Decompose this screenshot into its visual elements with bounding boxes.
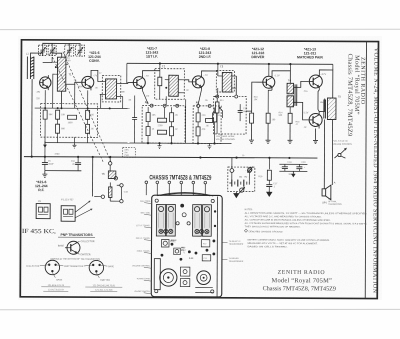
wire riser conv to bus: [126, 63, 128, 83]
battery holder lines: [195, 287, 213, 292]
rotated title block ZENITH RADIO: [346, 54, 365, 137]
value label R14: [279, 112, 284, 117]
oscillator coil T1: [55, 57, 68, 91]
stage label 2ND I.F.: [199, 47, 212, 59]
chassis part box 2: [174, 248, 181, 255]
wire volume to Q5 base: [246, 82, 262, 111]
ground bias box: [72, 143, 76, 148]
stage label CONV: [88, 51, 101, 63]
wire T4 bottom tap: [289, 107, 291, 113]
T3 secondary bottom wire: [214, 88, 218, 97]
trimmer capacitor C2A: [65, 45, 74, 56]
ground R12: [249, 123, 254, 143]
chassis small circles: [176, 213, 190, 225]
T2 primary bottom wire: [165, 96, 167, 105]
AGC A2 value labels: [202, 115, 222, 131]
volume box pin circles: [216, 95, 238, 98]
wire riser driver to bus: [289, 64, 291, 71]
wire trimmer top bus: [43, 43, 80, 45]
transistor bottom view 2: [84, 260, 108, 278]
wire Q6 emitter to Q7 collector: [318, 90, 319, 112]
transistor Q1 converter-osc: [40, 75, 51, 90]
wire bias bottoms to bus: [45, 119, 88, 157]
B1 labels: [234, 170, 248, 179]
transistor Q4 2nd IF: [192, 74, 204, 90]
filter F5 box: [36, 204, 50, 219]
chassis corner screws: [155, 199, 215, 293]
wire Q5 top riser: [268, 64, 270, 76]
wire Q6 collector to T5: [319, 70, 333, 99]
resistor R16: [267, 170, 271, 180]
wire riser T3 top to bus: [217, 64, 219, 71]
bottom view refs left: [48, 285, 65, 291]
pointer F1 to schematic: [75, 201, 90, 213]
dashed gang line 2: [52, 57, 104, 162]
wire Q4 emitter into AGC: [198, 90, 201, 105]
chassis layout outline: [151, 192, 222, 297]
denotes diamond symbol: [244, 229, 247, 232]
ground C17: [267, 190, 272, 196]
wire AGC bottom bus: [129, 142, 231, 144]
wire T2A to Q3 base: [123, 82, 134, 83]
wire comb vertical x75: [74, 84, 76, 108]
wire trimmer mid riser: [51, 43, 53, 45]
filter F1 box: [61, 206, 75, 222]
wire T1 bottom: [60, 91, 62, 108]
wire T2 bottom to bus: [184, 99, 186, 143]
earphone note dashed outline: [123, 147, 136, 157]
R11 w/switch caption: [216, 136, 236, 141]
transistor Q3 1st IF: [133, 75, 145, 91]
wire Q2 base from T1: [68, 82, 81, 84]
chassis extra X circles: [164, 229, 204, 233]
wire battery + to bus: [231, 158, 233, 169]
chassis solder dots: [161, 210, 217, 261]
schematic border frame: [20, 40, 378, 299]
wire top bus main run: [127, 63, 333, 64]
value label conv base: [74, 80, 84, 89]
transistor Q5 driver: [262, 74, 275, 90]
bottom view 2 labels: [74, 265, 115, 282]
ground R13: [265, 123, 270, 143]
left bias network dashed box: [41, 104, 98, 138]
speaker in chassis: [197, 271, 211, 285]
left bias values: [49, 114, 95, 130]
ground T4 tap: [287, 123, 292, 143]
legend labels: [58, 241, 95, 256]
stage label DRIVER: [251, 47, 265, 59]
AGC network dashed box A1: [142, 104, 185, 143]
stage label MATCHED PAIR: [297, 47, 323, 59]
wire trimmer C2A riser: [68, 43, 70, 45]
output transformer T5: [324, 98, 336, 120]
junction dots B- bus: [31, 156, 291, 159]
wire T5 core down: [323, 119, 325, 188]
IF can 1: [156, 204, 165, 236]
wire Q2 emitter down: [87, 90, 89, 110]
main B- bus: [24, 157, 317, 158]
earphone jack note box: [124, 150, 129, 157]
C9 label: [48, 161, 55, 166]
stage label 1ST I.F.: [146, 47, 159, 59]
node circles above chassis: [145, 181, 207, 184]
Q5 emitter resistor R13: [266, 113, 270, 123]
wire riser T2 top to bus: [159, 63, 161, 68]
T4 tap resistor R15: [288, 113, 292, 123]
IF transformer T3: [216, 70, 236, 92]
chassis part box 4: [202, 255, 211, 261]
wire Q5 collector to T4: [272, 71, 290, 84]
wire T3 secondary down to volume: [235, 76, 237, 96]
ground AGC box A2: [207, 143, 211, 148]
right margin separator line: [365, 42, 366, 298]
ground AGC box A1 left: [157, 143, 161, 148]
driver transformer T4: [287, 83, 297, 107]
chassis part box 1: [161, 239, 169, 247]
ground lower return: [42, 171, 47, 178]
junction dots bias row: [44, 107, 111, 109]
junction dots AGC bus: [147, 142, 216, 145]
wire T5 secondary down to speaker: [331, 120, 333, 185]
wire bias ground bus: [44, 142, 129, 144]
junction dots top bus: [159, 62, 292, 65]
ground C19 C20: [291, 171, 295, 177]
on-off switch S1: [334, 148, 346, 158]
wire T4 secondary to Q6 base: [294, 81, 309, 87]
trimmer capacitor C2B: [76, 45, 85, 56]
C17 label: [273, 183, 278, 188]
wire bias row bus: [35, 107, 130, 109]
dashed gang line 1: [62, 52, 111, 162]
T2A secondary bottom wire: [122, 96, 124, 108]
chassis left callouts: [132, 200, 151, 293]
transistor Q2 converter: [81, 74, 94, 90]
wire riser Q6 to bus: [332, 64, 334, 70]
wire R12: [251, 111, 253, 113]
wire Q1 emitter down: [44, 90, 46, 110]
capacitor under Q3 base: [132, 96, 137, 144]
chassis right callout T4: [222, 258, 243, 263]
wire antenna top: [31, 53, 43, 57]
IF can 2: [166, 205, 175, 237]
C10 label: [71, 161, 76, 166]
IF transformer T2: [155, 69, 185, 100]
Q5 bias resistor R12: [250, 113, 254, 123]
chassis right callout T5: [222, 241, 243, 246]
wire risers into chassis view: [146, 184, 205, 196]
osc feedback wire: [52, 57, 55, 62]
earphone jack J1: [247, 167, 253, 173]
capacitor C10: [75, 157, 81, 171]
wire comb vertical x101: [100, 94, 102, 108]
wire Q4 collector to T3: [202, 71, 218, 76]
dial pulley rect: [154, 259, 160, 290]
page bottom edge: [0, 308, 400, 310]
chassis part box 3: [201, 240, 210, 247]
chassis center stud: [180, 204, 184, 208]
wire Q5 emitter: [268, 90, 272, 113]
volume control dashed box R11: [214, 96, 247, 134]
junction dot Q5 riser: [268, 63, 270, 65]
bottom title block: [263, 270, 336, 293]
wire antenna bottom to ground bus: [31, 79, 33, 156]
page top edge: [0, 28, 400, 30]
C19 C20 labels: [280, 162, 306, 176]
earphone jack J2: [239, 187, 245, 193]
ground bias left: [43, 141, 47, 148]
IF can 4: [202, 205, 211, 237]
full ccw note: [332, 141, 352, 146]
1st IF transformer T2A (converter output): [100, 75, 123, 102]
transistor Q7 output: [308, 111, 322, 128]
IF can 3: [193, 205, 202, 237]
ground battery: [234, 192, 239, 198]
battery note block: [247, 239, 329, 249]
transistor symbol legend: [65, 241, 80, 254]
wire Q3 emitter into AGC: [142, 91, 148, 105]
wire Q7 collector join: [319, 98, 325, 111]
pointer F1 lower: [75, 209, 92, 218]
wire T4 secondary to Q7 base: [294, 102, 309, 120]
capacitor C17: [266, 180, 272, 190]
wire Q7 emitter ground: [313, 128, 318, 143]
electrolytic C19 C20: [269, 158, 307, 172]
transistor bottom view 1: [40, 260, 64, 278]
speaker SP1: [322, 185, 331, 200]
chassis left callout leaders: [144, 203, 152, 294]
battery B1 dashed box: [228, 167, 255, 192]
bottom view 1 labels: [26, 266, 74, 282]
value label osc grid: [67, 58, 71, 63]
notes block: [245, 209, 368, 234]
wire converter to T2A: [98, 75, 100, 81]
wire Q2 collector top: [91, 70, 98, 75]
chassis part tiny labels: [170, 241, 207, 260]
wire T2 to Q4 base: [184, 80, 192, 82]
wire T1 top riser: [52, 53, 62, 57]
antenna loopstick L1: [27, 57, 34, 80]
output coupling T6 / earphone section: [93, 157, 124, 203]
R11 volume labels: [220, 100, 249, 113]
scan noise overlay: [18, 36, 382, 300]
wire bias box riser: [73, 137, 75, 142]
wire lower return bus: [45, 170, 81, 172]
can inner lines: [159, 213, 210, 228]
capacitor C9: [42, 157, 48, 171]
speaker connection note: [328, 199, 342, 206]
trimmer capacitor C1A: [39, 45, 47, 56]
value label output bias: [296, 121, 301, 126]
osc bottom wire: [53, 74, 56, 108]
AGC A1 value labels: [152, 115, 179, 131]
wire top supply bus: [43, 62, 52, 64]
RF coil label block: [35, 180, 48, 192]
wire Q3 collector to T2: [143, 71, 160, 75]
value label driver base R10: [254, 97, 259, 102]
trimmer block: [180, 267, 190, 287]
trimmer capacitor C1B: [48, 45, 56, 56]
chassis bold part labels: [170, 239, 194, 260]
AGC network dashed box A2: [193, 104, 221, 143]
transistor Q6 output: [308, 73, 322, 90]
bottom view refs right: [92, 285, 115, 292]
tuning gang: [160, 269, 177, 286]
